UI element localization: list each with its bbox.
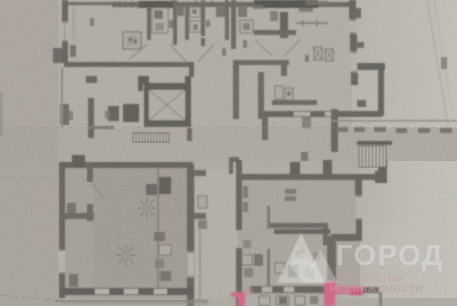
dashed diagonal bottom-left [0,295,62,301]
background bottom-right watermark zone [340,225,457,306]
balcony rail lines [55,300,208,302]
stair flight hatched [133,133,169,142]
elevator cab X [149,90,185,120]
vertical wall jut right [378,69,384,116]
fixtures beside wall [238,6,247,17]
icon below corridor [302,117,311,128]
axis dash-dot line mid [0,127,457,129]
corner piece [281,60,287,76]
faint dashed line left lower [0,176,57,178]
washer fixture [190,7,200,17]
corner fixture lower-left [69,274,78,287]
right outer wall lower segment [351,73,358,85]
bottom wall lower-right with windows [250,286,325,293]
stove [154,10,163,19]
pink vertical wall [324,281,335,306]
horizontal stub at axis [88,126,114,129]
vertical thin line left of stair [61,67,63,128]
background mid band between plans [0,128,457,161]
corridor inner wall [258,72,264,119]
elevator shaft walls [144,83,191,90]
dark wall pier center [280,12,288,38]
dimension ticks on top wall [114,0,228,8]
door swing small room [92,184,104,198]
window right wall [350,19,356,34]
door swing kitchen [128,44,148,60]
window right wall 2 [351,51,357,73]
plant icon cluster A [138,198,156,218]
rotated dim text on left wall [243,186,248,198]
partition corner down [323,223,328,245]
background left margin [0,0,58,306]
square at top wall end [375,171,387,183]
pier above wall 1 [290,162,300,174]
bath fixture [190,21,201,32]
watermark logo mountains [277,233,338,283]
dark wall right of pink bar [363,287,379,293]
wall crossing axis right [331,109,338,152]
interior horizontal wall small room [60,213,94,219]
window right wall lower-left [188,251,194,278]
corner wall bottom of window [331,234,362,241]
long bottom wall with windows [260,111,382,117]
fridge fixture [216,6,225,17]
icon above wall [301,152,308,161]
top outer wall upper plan [62,2,122,5]
left edge smudge [0,92,3,137]
right wall lower-left apartment [187,165,194,251]
kitchen counter [152,8,168,33]
partition thin vertical bottom [267,249,270,289]
interior wall bath right [185,6,189,40]
background lower-right room interior [238,175,360,295]
wall below corridor crossing axis [262,117,268,140]
film grain noise [0,0,1,1]
bottom cluster fixtures 1 [242,255,252,265]
wall stub left at axis [60,104,69,125]
small marks [270,11,278,21]
top wall dark section right apt [254,0,318,8]
dark bar under dim strip [357,141,392,145]
background right mid [360,130,457,230]
pier left protrusion [53,48,62,63]
right outer wall upper segment [349,0,356,19]
interior wall hall [201,0,205,36]
background lower-left room interior [60,162,195,298]
small dim text left [68,111,73,120]
elevator entry wall [138,76,149,84]
stub right [356,42,364,48]
wall stub right of apartment top [194,170,206,176]
left wall upper-right apartment [231,0,236,49]
right wall lower-right apartment [355,174,362,195]
pink bright bar [349,289,363,295]
wall crossing axis left [88,98,94,138]
pier above wall 2 [323,160,332,174]
fixtures column center [154,232,165,241]
furniture row below bottom wall [259,296,270,305]
corridor left wall [233,60,239,119]
interior wall right of hall [225,0,229,40]
bottom wall upper-right apartment [234,60,289,65]
room label text lower-right [285,189,296,194]
top wall lower-right apartment [239,174,381,180]
thin line above dim strip [330,120,457,122]
right outer wall mid segment [350,34,357,51]
square at stair end [378,160,387,173]
fixture on left wall [70,45,76,57]
jog stub right wall [354,8,361,18]
interior wall bath left [173,0,177,45]
pink wall corner bottom-left of right apt [237,292,245,306]
left outer wall lower plan [59,162,65,249]
lower-right left wall [236,160,242,230]
wall stub below axis center [187,128,192,141]
corridor horizontal wall [272,100,317,105]
pink horizontal wall [335,286,363,294]
door swing diagonal left apt [170,44,186,62]
dimension line right top [427,0,448,125]
left outer wall lower segment [62,42,68,63]
tiny dimension specks upper plan [90,5,313,62]
faint inner line left room [73,7,75,39]
bottom-right horizontal wall of right apt [357,63,385,70]
bottom wall upper-left apartment [64,62,194,67]
inner partition horizontal [270,223,323,228]
rotated dim text right [441,57,447,69]
corridor fixtures [275,86,283,99]
lower-left apartment top wall [64,162,193,168]
background outside top-right [352,0,457,130]
left outer wall bottom segment [59,274,65,298]
piers at plan bottom edge [108,106,119,121]
inner partition vertical [267,206,270,229]
window left wall lower plan [59,249,65,274]
wall stub hall [201,38,205,46]
inner corner stub [357,100,366,107]
interior wall kitchen [147,7,151,40]
faint vertical line right of apartment [199,228,201,306]
corner down from bottom wall [189,64,194,77]
two fixture squares with X [314,47,322,60]
cabinet square [240,20,253,33]
lower-right apartment left wall top hook [229,157,239,162]
background lower-left big room darker [94,169,193,289]
background upper half tint [0,0,457,130]
stair hatch right lower [359,146,386,167]
dark wall above pink vertical [327,236,336,284]
bottom wall lower-left with windows [60,288,193,295]
balcony rail line [296,22,328,24]
pink faint bits [245,288,253,293]
fixtures right of wall [198,196,207,208]
door swing diagonal hall [255,40,272,56]
thin vertical below [379,292,382,306]
wall pier upper [86,76,97,83]
sink [155,23,164,31]
left outer wall upper segment [62,0,68,21]
bottom cluster fixtures 2 [275,263,285,273]
top wall dark section [139,1,173,8]
window right wall lower-right [356,195,362,220]
toilet [176,7,184,16]
tiny furniture marks bottom center [243,240,251,248]
plant icon cluster B [116,244,136,266]
dim text specks strip [336,127,452,133]
long horizontal wall above bottom zone [274,229,330,234]
interior divider small room [87,162,93,182]
window left wall upper [62,21,68,42]
background strip right of lower-left apartment [195,170,237,306]
top tiny text marks [306,1,328,5]
toilet lower-left [67,203,76,213]
thin divider big room [157,168,159,288]
furniture boxes top of big room [146,184,157,195]
pier on top wall [72,155,85,168]
horizontal wall under pier [254,30,296,35]
wall stub right of apartment mid [194,213,206,219]
electrical panel square [123,32,141,49]
background bottom strip [0,298,457,306]
